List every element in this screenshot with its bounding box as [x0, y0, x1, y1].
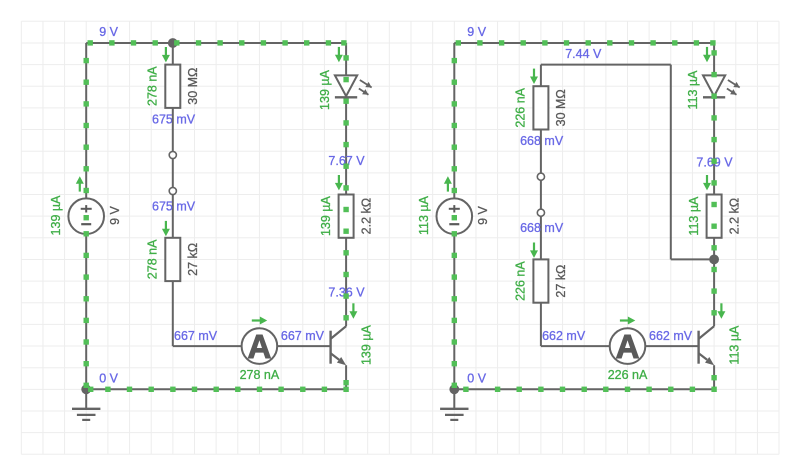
voltage source V1 current arrow (up): [76, 176, 84, 191]
svg-text:139 µA: 139 µA: [49, 195, 63, 236]
node: circuit 1 ground junction: [81, 384, 91, 394]
current dot at top-right corner (circuit 1): [341, 40, 346, 45]
current dot inside source V1: [84, 215, 89, 220]
resistor 30 MΩ (circuit 2): [533, 86, 548, 129]
svg-text:30 MΩ: 30 MΩ: [554, 89, 568, 126]
svg-text:2.2 kΩ: 2.2 kΩ: [359, 198, 373, 234]
node: collector junction (circuit 2): [709, 255, 719, 265]
post (upper) on middle branch (circuit 1): [169, 151, 176, 158]
svg-text:27 kΩ: 27 kΩ: [186, 243, 200, 276]
ammeter A1 current arrow (right): [252, 317, 267, 325]
wire: circuit 1 top rail: [86, 42, 346, 44]
ammeter A1: [242, 328, 278, 365]
svg-text:278 nA: 278 nA: [146, 239, 160, 279]
wire: top rail corner to LED (circuit 2): [713, 43, 715, 75]
wire: circuit 2 bottom rail: [454, 388, 714, 390]
svg-text:A: A: [247, 328, 271, 365]
current dot at top-right corner (circuit 2): [710, 40, 715, 45]
wire: LED to 2.2k (circuit 1): [345, 97, 347, 194]
transistor Q1 (NPN): [331, 326, 347, 365]
LED D2: [703, 75, 740, 97]
wire: ammeter to transistor base (circuit 1): [277, 345, 330, 347]
svg-text:668 mV: 668 mV: [520, 221, 564, 235]
svg-text:9 V: 9 V: [99, 25, 118, 39]
wire: 30M to 27k (circuit 1): [172, 108, 174, 238]
post (upper) on middle branch (circuit 2): [537, 173, 544, 180]
resistor 30 MΩ current arrow: [530, 69, 538, 84]
resistor 2.2 kΩ (circuit 2): [707, 195, 722, 238]
svg-text:9 V: 9 V: [476, 205, 490, 224]
node: top rail junction (circuit 1): [168, 38, 178, 48]
transistor Q2 collector current arrow: [717, 303, 725, 318]
transistor Q2 (NPN): [699, 326, 715, 365]
svg-text:278 nA: 278 nA: [240, 368, 280, 382]
wire: emitter to bottom rail (circuit 2): [713, 365, 715, 389]
voltage source V2 current arrow (up): [444, 176, 452, 191]
svg-text:139 µA: 139 µA: [318, 69, 332, 110]
wire: LED to 2.2k (circuit 2): [713, 97, 715, 194]
svg-text:113 µA: 113 µA: [417, 195, 431, 235]
svg-text:667 mV: 667 mV: [174, 329, 218, 343]
svg-text:278 nA: 278 nA: [146, 66, 160, 106]
svg-text:9 V: 9 V: [467, 25, 486, 39]
wire: 27k down to base corner (circuit 2): [540, 303, 542, 346]
svg-text:667 mV: 667 mV: [281, 329, 325, 343]
svg-text:30 MΩ: 30 MΩ: [186, 68, 200, 105]
resistor 27 kΩ (circuit 2): [533, 259, 548, 302]
svg-text:675 mV: 675 mV: [152, 199, 196, 213]
resistor 27 kΩ (circuit 1): [165, 238, 180, 281]
wire: emitter to bottom rail (circuit 1): [345, 365, 347, 389]
wire: circuit 2 left rail upper: [453, 43, 455, 198]
svg-text:662 mV: 662 mV: [542, 329, 586, 343]
post (lower) on middle branch (circuit 2): [537, 209, 544, 216]
voltage source V1 9V: [68, 198, 104, 234]
svg-text:2.2 kΩ: 2.2 kΩ: [727, 198, 741, 234]
svg-text:226 nA: 226 nA: [514, 261, 528, 301]
wire: 2.2k down to collector (circuit 1): [345, 238, 347, 326]
wire: top rail to 30M (circuit 1): [172, 43, 174, 65]
wire: circuit 2 left rail lower: [453, 234, 455, 389]
resistor 30 MΩ current arrow: [162, 47, 170, 62]
wire: circuit 1 left rail lower: [85, 234, 87, 389]
svg-text:139 µA: 139 µA: [359, 325, 373, 366]
svg-text:0 V: 0 V: [467, 371, 486, 385]
svg-text:675 mV: 675 mV: [152, 112, 196, 126]
svg-text:7.44 V: 7.44 V: [565, 47, 602, 61]
ground symbol circuit 1: [72, 389, 100, 420]
node: circuit 2 ground junction: [449, 384, 459, 394]
resistor 2.2 kΩ current arrow: [703, 175, 711, 190]
wire: feedback from 30M top to collector node (7.44 V net): [540, 65, 542, 87]
svg-text:139 µA: 139 µA: [319, 196, 333, 237]
transistor Q1 collector current arrow: [349, 303, 357, 318]
wire: circuit 1 left rail upper: [85, 43, 87, 198]
ammeter A2: [610, 328, 646, 365]
wire: 2.2k down to collector (circuit 2): [713, 238, 715, 326]
ground symbol circuit 2: [440, 389, 468, 420]
current dots: circuit 1 outer loop: [84, 40, 349, 392]
resistor 2.2 kΩ (circuit 1): [339, 195, 354, 238]
LED D1 current arrow: [335, 47, 343, 62]
svg-text:113 µA: 113 µA: [727, 325, 741, 365]
voltage source V2 9V: [437, 198, 473, 234]
svg-text:9 V: 9 V: [108, 205, 122, 224]
wire: 30M to 27k (circuit 2): [540, 130, 542, 260]
svg-text:668 mV: 668 mV: [520, 134, 564, 148]
svg-text:226 nA: 226 nA: [608, 368, 648, 382]
wire: circuit 2 top rail: [454, 42, 714, 44]
LED D1: [335, 75, 372, 97]
current dots: circuit 2 outer loop: [452, 40, 717, 392]
current dot inside source V2: [452, 215, 457, 220]
current dot beside ground junction (circuit 2): [463, 387, 468, 392]
wire: 27k down to base corner (circuit 1): [172, 281, 174, 346]
svg-text:662 mV: 662 mV: [649, 329, 693, 343]
current dot beside ground junction (circuit 1): [88, 387, 93, 392]
wire: circuit 1 bottom rail: [86, 388, 346, 390]
resistor 2.2 kΩ current arrow: [335, 175, 343, 190]
svg-text:27 kΩ: 27 kΩ: [554, 265, 568, 298]
svg-text:A: A: [616, 328, 640, 365]
wire: top rail corner to LED (circuit 1): [345, 43, 347, 75]
svg-text:113 µA: 113 µA: [687, 196, 701, 236]
LED D2 current arrow: [703, 47, 711, 62]
resistor 27 kΩ current arrow: [162, 221, 170, 236]
ammeter A2 current arrow (right): [620, 317, 635, 325]
svg-text:0 V: 0 V: [99, 371, 118, 385]
resistor 30 MΩ (circuit 1): [165, 65, 180, 108]
post (lower) on middle branch (circuit 1): [169, 187, 176, 194]
svg-text:226 nA: 226 nA: [514, 87, 528, 127]
resistor 27 kΩ current arrow: [530, 243, 538, 258]
svg-text:113 µA: 113 µA: [686, 70, 700, 110]
wire: ammeter to transistor base (circuit 2): [645, 345, 698, 347]
